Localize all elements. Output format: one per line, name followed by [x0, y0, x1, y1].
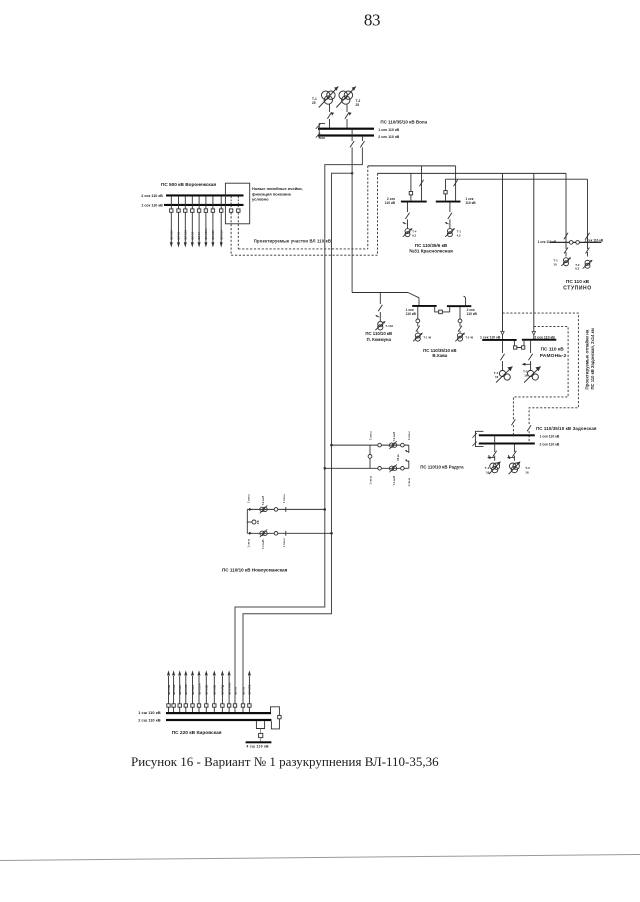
svg-text:Т-2 №26: Т-2 №26 — [393, 431, 396, 441]
svg-text:ВЛ-10Б: ВЛ-10Б — [205, 685, 209, 695]
svg-text:РАМОНЬ-2: РАМОНЬ-2 — [540, 353, 567, 359]
svg-text:83: 83 — [364, 10, 380, 29]
svg-text:ВЛ-27Ф: ВЛ-27Ф — [248, 684, 252, 695]
svg-text:ПС 110/35/10 кВ Вола: ПС 110/35/10 кВ Вола — [380, 119, 427, 124]
svg-text:ВЛ-11А: ВЛ-11А — [219, 230, 223, 239]
svg-text:1 сек ш: 1 сек ш — [283, 538, 286, 547]
svg-text:1 сек 110 кВ: 1 сек 110 кВ — [480, 336, 501, 340]
svg-text:16: 16 — [524, 374, 528, 378]
svg-text:Т-1 40: Т-1 40 — [423, 336, 431, 340]
svg-text:ПС 110 кВ Задонская, 2х14 км: ПС 110 кВ Задонская, 2х14 км — [590, 328, 595, 389]
svg-text:ВЛ-10: ВЛ-10 — [190, 231, 194, 239]
svg-text:Т-1 №25: Т-1 №25 — [262, 539, 265, 549]
svg-text:ПС 220 кВ Кировская: ПС 220 кВ Кировская — [172, 730, 222, 736]
svg-text:Т-1: Т-1 — [457, 230, 462, 234]
svg-text:1 сек 110 кВ: 1 сек 110 кВ — [540, 435, 560, 439]
svg-text:ПС 110/10 кВ: ПС 110/10 кВ — [365, 331, 392, 336]
svg-text:Т-2 №25: Т-2 №25 — [262, 495, 265, 505]
svg-text:25: 25 — [356, 103, 360, 107]
svg-text:ВЛ-35: ВЛ-35 — [233, 686, 237, 694]
svg-text:6,3: 6,3 — [412, 233, 416, 237]
svg-text:Проектируемые отпайки на: Проектируемые отпайки на — [585, 329, 590, 389]
svg-text:Проектируемые участки ВЛ 110 к: Проектируемые участки ВЛ 110 кВ — [254, 238, 331, 243]
svg-text:Рисунок 16 - Вариант № 1 разук: Рисунок 16 - Вариант № 1 разукрупнения В… — [131, 754, 439, 769]
svg-text:ВЛ-100: ВЛ-100 — [211, 230, 215, 240]
svg-text:1В кв: 1В кв — [397, 454, 400, 461]
svg-text:ПС 110/10 кВ Радуга: ПС 110/10 кВ Радуга — [420, 464, 464, 469]
svg-text:ВЛ-10Ф: ВЛ-10Ф — [172, 684, 176, 695]
svg-text:В.Хава: В.Хава — [432, 353, 447, 358]
svg-text:СТУПИНО: СТУПИНО — [563, 285, 592, 291]
svg-text:ПС 110 кВ: ПС 110 кВ — [566, 279, 590, 285]
svg-text:16: 16 — [525, 470, 529, 474]
svg-text:Т-2 40: Т-2 40 — [465, 336, 473, 340]
svg-text:ВЛ-30А: ВЛ-30А — [191, 685, 195, 695]
svg-text:1 сек 110 кВ: 1 сек 110 кВ — [141, 204, 163, 208]
svg-text:ПС 110 кВ: ПС 110 кВ — [541, 347, 565, 353]
svg-text:4 сш 110 кВ: 4 сш 110 кВ — [246, 745, 269, 749]
svg-text:16: 16 — [495, 375, 499, 379]
svg-text:1 сек ш: 1 сек ш — [369, 476, 372, 485]
svg-text:ВЛ-27АМ: ВЛ-27АМ — [227, 682, 231, 695]
svg-text:ПС 500 кВ Воронежская: ПС 500 кВ Воронежская — [161, 182, 216, 187]
svg-text:4,2: 4,2 — [457, 233, 461, 237]
svg-text:1 сек ш: 1 сек ш — [247, 539, 250, 548]
svg-text:2 сек ш: 2 сек ш — [369, 431, 372, 440]
svg-text:П. Коммуна: П. Коммуна — [367, 337, 392, 342]
svg-text:ВЛ-27Д: ВЛ-27Д — [221, 685, 225, 695]
svg-text:1 сек 110 кВ: 1 сек 110 кВ — [538, 240, 557, 244]
svg-text:ВЛ-10А: ВЛ-10А — [178, 685, 182, 695]
svg-text:10: 10 — [553, 263, 557, 267]
svg-text:2 сш 110 кВ: 2 сш 110 кВ — [138, 717, 161, 722]
svg-text:ВЛ-11В: ВЛ-11В — [167, 685, 171, 694]
svg-text:2 сек 110 кВ: 2 сек 110 кВ — [378, 135, 399, 139]
svg-text:2 сек ш: 2 сек ш — [283, 494, 286, 503]
svg-text:1 сек 110 кВ: 1 сек 110 кВ — [378, 128, 399, 132]
svg-text:ВЛ-17Ф: ВЛ-17Ф — [184, 684, 188, 695]
svg-text:110 кВ: 110 кВ — [467, 312, 478, 316]
svg-text:ПС 110/10 кВ Новоусманская: ПС 110/10 кВ Новоусманская — [222, 567, 288, 572]
svg-text:Т-142: Т-142 — [385, 324, 393, 328]
svg-text:2 сек 110 кВ: 2 сек 110 кВ — [141, 194, 163, 198]
svg-text:25: 25 — [312, 101, 316, 105]
svg-text:2 сек ш: 2 сек ш — [247, 494, 250, 503]
svg-text:2 сек 110 кВ: 2 сек 110 кВ — [585, 239, 604, 243]
svg-text:ВЛ-14: ВЛ-14 — [197, 231, 201, 239]
svg-text:№31 Краснолесная: №31 Краснолесная — [409, 248, 453, 253]
svg-text:2 сек ш: 2 сек ш — [408, 431, 411, 440]
svg-text:Т-1 №26: Т-1 №26 — [393, 475, 396, 485]
svg-text:Т-4: Т-4 — [412, 230, 417, 234]
svg-text:ВЛ-106: ВЛ-106 — [169, 230, 173, 240]
svg-text:ПС 110/35/10 кВ Задонская: ПС 110/35/10 кВ Задонская — [536, 426, 597, 431]
svg-text:б/В: б/В — [257, 520, 260, 524]
svg-text:110 кВ: 110 кВ — [385, 201, 396, 205]
svg-text:110 кВ: 110 кВ — [465, 201, 476, 205]
svg-text:2 сек 110 кВ: 2 сек 110 кВ — [534, 335, 555, 339]
svg-text:1 сш 110 кВ: 1 сш 110 кВ — [138, 710, 161, 715]
svg-text:1 сек ш: 1 сек ш — [408, 478, 411, 487]
svg-text:16: 16 — [486, 470, 490, 474]
svg-text:ВЛ-13А: ВЛ-13А — [183, 230, 187, 240]
svg-text:ВЛ-11: ВЛ-11 — [177, 232, 181, 240]
svg-text:ВЛ-100А: ВЛ-100А — [197, 683, 201, 694]
svg-text:ВЛ-105А: ВЛ-105А — [204, 228, 208, 239]
svg-text:ВЛ-36: ВЛ-36 — [241, 686, 245, 694]
svg-text:2 сек 110 кВ: 2 сек 110 кВ — [540, 442, 560, 446]
svg-text:6,3: 6,3 — [575, 267, 579, 271]
svg-text:условно: условно — [252, 196, 269, 201]
svg-text:110 кВ: 110 кВ — [406, 312, 417, 316]
svg-text:ВЛ-20Б: ВЛ-20Б — [213, 685, 217, 695]
